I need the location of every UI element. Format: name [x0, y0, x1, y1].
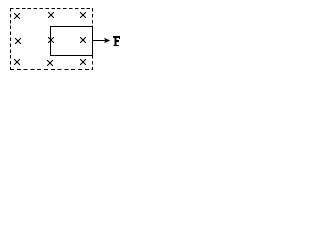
field boundary bottom edge: [10, 69, 93, 71]
field boundary left edge: [10, 8, 12, 70]
field symbol x6 (inside loop): [80, 37, 86, 43]
field symbol x3: [80, 12, 86, 18]
conducting loop (solid rectangle): [51, 27, 93, 56]
field symbol x9: [80, 59, 86, 65]
force arrow shaft: [93, 40, 107, 42]
field symbol x8: [47, 60, 53, 66]
force label F: [113, 36, 120, 46]
field symbol x2: [48, 12, 54, 18]
field symbol x4: [15, 38, 21, 44]
magnetic field region boundary B (dashed rectangle), top edge: [10, 8, 93, 10]
field boundary right edge: [92, 8, 94, 70]
field symbol x1: [14, 13, 20, 19]
field symbol x5 (on loop left edge): [48, 37, 54, 43]
field symbol x7: [14, 59, 20, 65]
force arrow head: [104, 38, 110, 44]
